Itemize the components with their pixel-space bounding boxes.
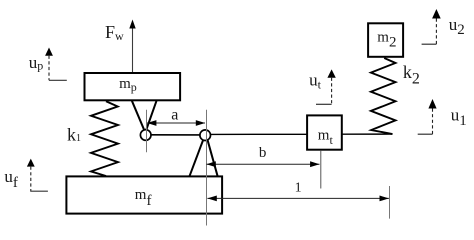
spring k1 [91,101,118,176]
displacement u_f arrow [27,159,35,167]
extension line below m_t (dim b) [320,151,322,189]
mass m_p box [85,73,181,100]
mass m_t box [307,115,342,149]
force F_w arrow [132,28,134,74]
centerline through right pin [206,110,208,226]
support triangle left leg [190,140,204,176]
support triangle right leg [208,140,218,176]
wire: link bar between pins [149,134,202,136]
displacement u_1 arrow [428,99,436,109]
link V left leg (m_p to pin) [132,101,144,130]
wire: m_t to spring k2 [342,133,393,135]
pin joint left circle [140,130,151,141]
pin joint right circle [200,130,211,141]
displacement u_t arrow [327,69,335,77]
centerline through left pin [146,110,148,153]
mass m_f box [66,176,222,213]
svg-text:1: 1 [295,181,302,196]
displacement u_2 arrow [432,9,441,19]
spring k2 [371,58,396,134]
displacement u_p arrow [45,48,53,56]
dim b line [206,163,319,165]
mass m_2 box [368,23,403,57]
terminator line for dim l [389,186,391,219]
wire: right pin to m_t [209,133,308,135]
svg-text:b: b [259,145,267,161]
dim a line [147,122,205,124]
dim l line [207,197,389,199]
link V right leg (m_p to pin) [146,101,156,130]
svg-text:a: a [171,106,178,123]
